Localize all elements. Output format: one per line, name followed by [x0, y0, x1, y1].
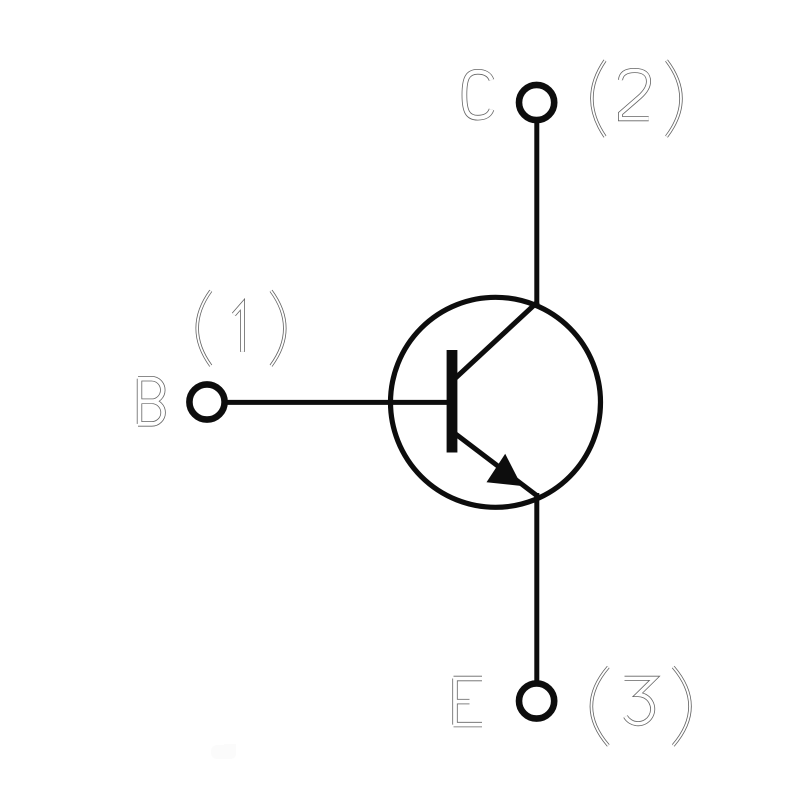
transistor Q1 base bar [447, 350, 458, 453]
label (3) [591, 667, 690, 746]
wire emitter vertical [534, 493, 539, 683]
label (2) [592, 61, 681, 137]
wire collector vertical [534, 121, 539, 305]
terminal B pin circle [189, 384, 224, 419]
label E (outline letter) [454, 679, 483, 725]
emitter arrow [487, 454, 522, 486]
wire base B [225, 400, 450, 405]
transistor Q1 body circle [391, 297, 601, 507]
faint watermark blob [211, 744, 236, 759]
terminal E pin circle [519, 683, 554, 718]
label (1) [197, 291, 285, 366]
label B (outline letter) [138, 379, 163, 424]
wire collector diagonal [455, 302, 538, 379]
terminal C pin circle [519, 85, 554, 120]
label C (outline letter) [464, 72, 491, 118]
wire emitter diagonal [455, 434, 538, 497]
